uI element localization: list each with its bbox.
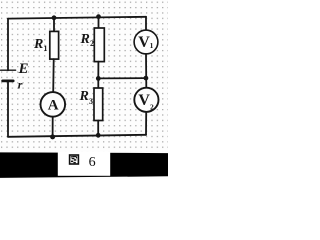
svg-text:2: 2 [90,39,94,48]
svg-text:A: A [48,97,59,113]
svg-text:1: 1 [44,44,48,53]
wire bottom [8,135,146,137]
wire left lower [7,81,9,137]
svg-text:V: V [138,92,150,109]
svg-text:R: R [33,37,43,52]
svg-text:V: V [138,34,150,51]
resistor R3 [94,88,103,121]
wire top [8,17,146,19]
node bottom R3 [96,133,101,138]
svg-text:3: 3 [89,97,93,106]
wire left upper [7,19,9,71]
battery E r [1,70,16,81]
wire R2 top lead [98,17,100,28]
node bottom ammeter [50,134,55,139]
node top R2 [96,14,101,19]
voltmeter V2 [134,88,158,112]
caption white box [58,152,110,176]
node top R1 [52,15,57,20]
wire R1 to ammeter [52,59,55,92]
svg-text:r: r [18,78,23,92]
svg-text:R: R [80,32,90,47]
resistor R2 [94,28,104,62]
voltmeter V1 [134,30,158,54]
wire V1 to V2 [145,54,147,88]
ammeter A [41,92,66,117]
svg-text:E: E [18,61,29,77]
glyph 图 (drawn) [70,155,79,164]
wire right upper [145,17,147,30]
resistor R1 [50,31,59,59]
wire ammeter bottom lead [52,117,54,137]
wire R3 bottom lead [97,121,99,136]
node middle R2-R3 [96,76,101,81]
node middle right [144,76,149,81]
black caption bar [0,152,168,178]
wire middle node [98,77,146,79]
wire R3 top lead [97,78,99,88]
wire right lower [145,112,147,135]
svg-text:R: R [79,89,89,104]
wire R2 bottom lead [97,62,99,79]
svg-text:2: 2 [150,103,154,112]
svg-text:6: 6 [89,155,96,170]
wire R1 top lead [53,18,55,32]
svg-text:1: 1 [150,41,154,50]
